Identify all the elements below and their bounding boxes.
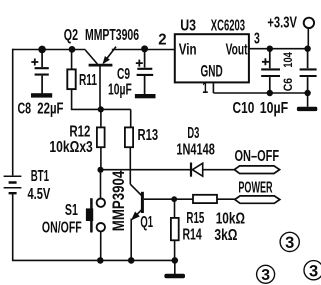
wire bottom rail xyxy=(12,259,175,261)
svg-text:GND: GND xyxy=(201,63,223,81)
svg-text:BT1: BT1 xyxy=(31,168,50,185)
svg-text:R11: R11 xyxy=(79,72,97,89)
svg-text:10µF: 10µF xyxy=(108,81,132,98)
wire R11 bottom to node A xyxy=(71,108,101,111)
svg-text:MMPT3906: MMPT3906 xyxy=(85,27,139,44)
wire +3.3V stub xyxy=(307,28,309,49)
svg-text:XC6203: XC6203 xyxy=(211,17,245,34)
ground (bottom) xyxy=(164,260,185,278)
svg-text:D3: D3 xyxy=(187,125,199,142)
wire top rail segment 2 to U3 Vin xyxy=(112,49,175,51)
svg-text:S1: S1 xyxy=(65,202,78,219)
wire ON-OFF row xyxy=(101,169,191,171)
svg-text:ON/OFF: ON/OFF xyxy=(42,219,82,236)
transistor Q2 xyxy=(85,47,116,110)
switch S1 xyxy=(86,170,105,261)
svg-text:1: 1 xyxy=(202,80,208,97)
resistor R15 xyxy=(174,195,235,203)
wire U3 pin1 GND row xyxy=(213,82,307,93)
node B dot (ON-OFF node) xyxy=(97,167,103,173)
node dot Q1 base / R14 / R15 xyxy=(171,196,177,202)
net marker circled 3 (lower right) xyxy=(304,261,321,281)
svg-text:Q2: Q2 xyxy=(64,27,78,44)
svg-text:C10: C10 xyxy=(233,100,255,117)
svg-text:3: 3 xyxy=(309,262,318,280)
ground (right) xyxy=(297,93,317,111)
capacitor C6 xyxy=(300,49,317,93)
svg-text:MMP3904: MMP3904 xyxy=(109,170,128,231)
svg-text:3: 3 xyxy=(254,30,260,47)
svg-text:2: 2 xyxy=(158,32,166,49)
net tag POWER xyxy=(235,196,280,203)
node junction dot C9/top rail xyxy=(141,45,148,52)
node dot S1/bottom rail xyxy=(97,257,104,264)
node junction dot C10/Vout xyxy=(267,46,273,52)
svg-text:Vout: Vout xyxy=(226,41,248,58)
svg-text:Vin: Vin xyxy=(179,41,197,58)
wire node A to R13 xyxy=(101,109,131,127)
capacitor C8 xyxy=(31,49,52,97)
op-amp U3 regulator box xyxy=(175,34,249,82)
net tag ON-OFF xyxy=(234,166,279,174)
svg-text:R13: R13 xyxy=(138,127,159,144)
svg-text:3: 3 xyxy=(261,267,270,284)
svg-text:4.5V: 4.5V xyxy=(28,186,51,203)
resistor R13 xyxy=(125,127,133,184)
wire top rail segment 1 xyxy=(12,49,86,51)
diode D3 xyxy=(191,163,234,177)
node junction dot R11/top rail xyxy=(69,46,76,53)
svg-text:+3.3V: +3.3V xyxy=(267,15,297,32)
resistor R11 xyxy=(67,49,75,109)
node junction dot C10/GND row xyxy=(267,90,273,96)
svg-text:3kΩ: 3kΩ xyxy=(214,227,237,244)
node dot R14/bottom rail xyxy=(172,257,179,264)
svg-text:104: 104 xyxy=(281,52,295,67)
svg-text:10µF: 10µF xyxy=(260,100,288,117)
svg-text:3: 3 xyxy=(285,234,294,252)
svg-text:R12: R12 xyxy=(69,123,90,140)
svg-text:R14: R14 xyxy=(183,227,202,244)
node junction dot C6/GND row xyxy=(304,90,310,96)
svg-text:R15: R15 xyxy=(186,210,204,227)
net marker circled 3 (upper) xyxy=(280,232,299,252)
battery BT1 xyxy=(4,176,22,193)
svg-text:C6: C6 xyxy=(281,78,295,91)
wire left rail (battery column) xyxy=(12,49,14,261)
svg-text:POWER: POWER xyxy=(238,179,272,196)
svg-text:C8: C8 xyxy=(18,101,32,118)
svg-text:10kΩ: 10kΩ xyxy=(216,210,245,227)
resistor R14 xyxy=(171,199,179,260)
svg-text:Q1: Q1 xyxy=(140,214,153,231)
svg-text:22µF: 22µF xyxy=(37,101,63,118)
net marker circled 3 (lower left) xyxy=(257,265,275,284)
capacitor C9 xyxy=(135,49,156,98)
svg-text:10kΩx3: 10kΩx3 xyxy=(49,139,92,156)
node junction dot C6/Vout xyxy=(304,46,310,52)
node A dot (Q2 base node) xyxy=(98,106,104,112)
svg-text:U3: U3 xyxy=(180,17,196,34)
transistor Q1 xyxy=(130,184,174,260)
capacitor C10 xyxy=(261,49,280,93)
resistor R12 xyxy=(97,109,105,169)
wire Vout row xyxy=(249,48,308,50)
node junction dot C8/top rail xyxy=(38,46,46,54)
svg-text:1N4148: 1N4148 xyxy=(176,142,215,159)
terminal +3.3V circle xyxy=(304,18,314,28)
node dot Q1 emitter/bottom rail xyxy=(128,257,135,264)
svg-text:ON–OFF: ON–OFF xyxy=(235,148,280,165)
